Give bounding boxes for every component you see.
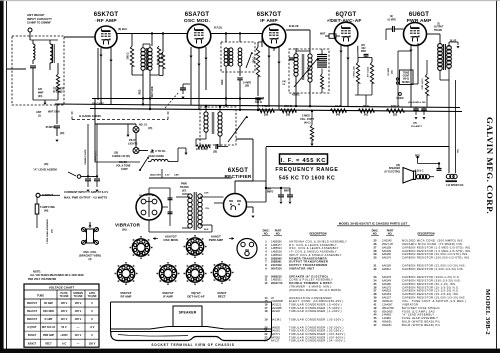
svg-text:TRANS: TRANS	[434, 29, 442, 32]
svg-text:+105V: +105V	[60, 333, 68, 337]
svg-text:R.F.(2): R.F.(2)	[214, 26, 222, 30]
svg-text:FUSE LEAD ASSEMBLY: FUSE LEAD ASSEMBLY	[46, 218, 49, 243]
svg-text:(14): (14)	[282, 80, 286, 83]
svg-text:"A" LEAD ASSEM: "A" LEAD ASSEM	[33, 168, 57, 172]
svg-text:& GANG COND.: & GANG COND.	[79, 114, 102, 118]
svg-text:12A4097: 12A4097	[382, 302, 393, 306]
svg-text:NO.: NO.	[373, 233, 378, 236]
svg-text:26A47-53: 26A47-53	[271, 281, 283, 285]
svg-text:6SA7GT: 6SA7GT	[185, 12, 210, 18]
svg-text:OSC MOD.: OSC MOD.	[184, 18, 211, 24]
svg-text:455 KC: 455 KC	[292, 94, 300, 97]
svg-text:TUBULAR CONDENSER (.04--300V.): TUBULAR CONDENSER (.04--300V.)	[289, 339, 345, 343]
svg-text:(16): (16)	[396, 165, 400, 167]
svg-text:(1): (1)	[38, 115, 41, 118]
svg-text:(6) BLU: (6) BLU	[118, 27, 127, 31]
svg-text:CARBON RESISTOR (50-1-10) INS.: CARBON RESISTOR (50-1-10) INS.	[402, 282, 456, 286]
svg-text:MODEL 39-B2 6SA7GT IC CHASS: MODEL 39-B2 6SA7GT IC CHASSIS PARTS LIST	[339, 221, 408, 225]
svg-text:6SK7GT: 6SK7GT	[257, 12, 282, 18]
svg-text:545 KC TO 1600 KC: 545 KC TO 1600 KC	[279, 176, 336, 182]
svg-text:DESCRIPTION: DESCRIPTION	[417, 233, 434, 236]
svg-text:(42A) GRO: (42A) GRO	[150, 174, 161, 177]
svg-text:6X5GT: 6X5GT	[28, 341, 37, 345]
svg-text:CARBON RESISTOR (1.0 MEG-1/3-S: CARBON RESISTOR (1.0 MEG-1/3-STD) INS.	[402, 249, 471, 253]
svg-text:VOICE: VOICE	[396, 97, 404, 100]
svg-text:DET-AVC-AF: DET-AVC-AF	[187, 295, 205, 299]
svg-text:33K Ω: 33K Ω	[126, 52, 129, 59]
svg-text:SOCKET TERMINAL VIEW OF CH: SOCKET TERMINAL VIEW OF CHASSIS	[151, 343, 234, 347]
svg-text:C6H: C6H	[204, 193, 209, 195]
svg-text:YEL: YEL	[458, 148, 460, 153]
svg-text:WHT GRN: WHT GRN	[48, 111, 60, 114]
svg-text:IF AMP: IF AMP	[163, 295, 173, 299]
svg-text:TO GND: TO GND	[60, 296, 69, 298]
svg-text:CARBON RESISTOR (330-1/3-20) I: CARBON RESISTOR (330-1/3-20) INS.	[402, 278, 461, 282]
svg-text:(48): (48)	[44, 209, 48, 212]
svg-text:VIBRATOR UNIT: VIBRATOR UNIT	[289, 266, 314, 270]
svg-text:6A6512: 6A6512	[382, 267, 392, 271]
svg-text:.01 MFD: .01 MFD	[387, 19, 396, 21]
svg-text:GALVIN MFG. CORP.: GALVIN MFG. CORP.	[485, 117, 495, 214]
svg-text:45A6/51: 45A6/51	[382, 323, 392, 327]
svg-text:NO. 51: NO. 51	[139, 124, 148, 127]
svg-text:(3): (3)	[89, 258, 92, 261]
svg-text:CARBON RESISTOR (22-1/3-20) N.: CARBON RESISTOR (22-1/3-20) N.S.	[402, 289, 459, 293]
svg-text:330 Ω: 330 Ω	[255, 101, 262, 104]
svg-text:·RF AMP: ·RF AMP	[95, 18, 117, 24]
svg-text:B BLUE: B BLUE	[289, 24, 299, 28]
svg-text:6A6139: 6A6139	[382, 249, 392, 253]
svg-text:ANT: ANT	[36, 110, 42, 114]
svg-text:ON GANG: ON GANG	[92, 103, 104, 106]
svg-text:2200 Ω: 2200 Ω	[391, 104, 400, 108]
svg-text:TUBULAR CONDENSER (.05-100V.): TUBULAR CONDENSER (.05-100V.)	[289, 317, 344, 321]
svg-text:27K Ω (36): 27K Ω (36)	[196, 149, 208, 151]
svg-text:FUSE (1/2 AMP.) 3AG: FUSE (1/2 AMP.) 3AG	[402, 309, 435, 313]
svg-text:RF AMP: RF AMP	[121, 295, 132, 299]
svg-text:(47): (47)	[327, 19, 332, 23]
svg-text:(50): (50)	[51, 229, 53, 233]
svg-text:105 V: 105 V	[89, 341, 96, 345]
svg-text:(26): (26)	[264, 114, 268, 117]
svg-text:CARBON RESISTOR (25-1/3-20) IN: CARBON RESISTOR (25-1/3-20) INS.	[402, 292, 459, 296]
svg-text:14A981: 14A981	[382, 316, 392, 320]
svg-text:6 Q7GT: 6 Q7GT	[27, 325, 37, 329]
svg-text:(59) BOND & YEL: (59) BOND & YEL	[408, 102, 427, 104]
svg-text:105 V: 105 V	[75, 301, 82, 305]
svg-text:6SA7GT: 6SA7GT	[27, 309, 38, 313]
svg-text:OSC. COIL: OSC. COIL	[83, 250, 97, 254]
svg-text:ALL VOLTAGES MEASURED ON A 100: ALL VOLTAGES MEASURED ON A 1000 OHM	[30, 274, 83, 277]
svg-text:(35): (35)	[392, 70, 394, 74]
svg-text:1 MEG: 1 MEG	[262, 104, 270, 108]
svg-text:(33): (33)	[393, 114, 397, 117]
svg-text:4 Ω SPKR FLD.: 4 Ω SPKR FLD.	[446, 184, 464, 187]
svg-text:3 Ω & C: 3 Ω & C	[415, 171, 424, 173]
svg-text:NOTE:: NOTE:	[33, 270, 41, 274]
svg-text:A C: A C	[62, 341, 66, 345]
svg-text:23 MMF TO 230MMF: 23 MMF TO 230MMF	[27, 22, 51, 25]
svg-text:6SK7GT: 6SK7GT	[94, 12, 119, 18]
svg-text:RECT.: RECT.	[218, 295, 227, 299]
svg-text:(28): (28)	[213, 151, 217, 153]
svg-text:8A2120: 8A2120	[271, 309, 281, 313]
svg-text:OSC MOD: OSC MOD	[43, 311, 54, 313]
svg-text:105 V: 105 V	[61, 309, 68, 313]
svg-text:CERAMIC MICA COND. (70 MMFD) I: CERAMIC MICA COND. (70 MMFD) INS.	[402, 242, 463, 246]
svg-text:—: —	[77, 326, 80, 329]
svg-text:(9): (9)	[390, 16, 393, 18]
svg-text:TO GND: TO GND	[74, 296, 83, 298]
svg-text:WHT: WHT	[320, 33, 326, 36]
svg-text:(57): (57)	[182, 189, 186, 192]
svg-text:RECT: RECT	[45, 343, 52, 345]
svg-text:WHT GRN: WHT GRN	[152, 86, 154, 97]
svg-text:6A6178: 6A6178	[382, 275, 392, 279]
svg-text:8MFD: 8MFD	[284, 191, 291, 193]
svg-text:INPUT CAPACITY: INPUT CAPACITY	[27, 17, 52, 21]
svg-text:6Q7GT: 6Q7GT	[336, 12, 357, 18]
svg-text:50A7310: 50A7310	[271, 266, 282, 270]
svg-text:6A6180: 6A6180	[382, 282, 392, 286]
svg-text:(49-1): (49-1)	[304, 122, 311, 125]
svg-text:(BRACKET VIEW): (BRACKET VIEW)	[79, 254, 101, 258]
svg-text:MODEL 39B-2: MODEL 39B-2	[484, 289, 491, 335]
svg-text:VOL., TONE CONT. & SWITCH (1/2: VOL., TONE CONT. & SWITCH (1/2 MEG.)	[402, 299, 466, 303]
svg-text:6.3V: 6.3V	[165, 175, 170, 177]
svg-text:49A5120: 49A5120	[382, 299, 393, 303]
svg-text:CARBON RESISTOR (15,000-1/3-20: CARBON RESISTOR (15,000-1/3-20) INS.	[402, 296, 466, 300]
svg-text:(27): (27)	[361, 45, 365, 47]
svg-text:CARBON RESISTOR (1000-1-20) N.: CARBON RESISTOR (1000-1-20) N.S.	[402, 275, 460, 279]
svg-text:IF AMP: IF AMP	[260, 18, 278, 24]
svg-text:HASH CHOKE: HASH CHOKE	[148, 155, 164, 158]
svg-text:(39): (39)	[245, 86, 249, 88]
svg-text:TRIMMER: TRIMMER	[53, 89, 64, 91]
svg-text:.05 MFD: .05 MFD	[45, 126, 55, 129]
svg-text:2-60245: 2-60245	[382, 239, 392, 243]
svg-text:2 MEG: 2 MEG	[302, 114, 310, 118]
svg-text:8A-127: 8A-127	[271, 339, 280, 343]
svg-text:6X5GT: 6X5GT	[228, 168, 249, 174]
svg-text:50 Ω: 50 Ω	[363, 104, 369, 108]
svg-text:6A6175: 6A6175	[382, 285, 392, 289]
svg-text:MAX. PWR OUTPUT - 4.5 WATTS: MAX. PWR OUTPUT - 4.5 WATTS	[64, 195, 107, 199]
svg-text:6A6137: 6A6137	[382, 296, 392, 300]
svg-text:MUSIC: MUSIC	[402, 81, 410, 84]
svg-text:OSC MOD.: OSC MOD.	[163, 238, 178, 242]
svg-text:CARBON RESISTOR (10-1/3-20) N.: CARBON RESISTOR (10-1/3-20) N.S.	[402, 285, 459, 289]
svg-text:6A6159: 6A6159	[382, 264, 392, 268]
svg-text:.002: .002	[361, 48, 366, 50]
svg-text:YEL: YEL	[205, 208, 210, 210]
svg-text:CURRENT INPUT:-7 AMP AT 6.3: CURRENT INPUT:-7 AMP AT 6.3 V	[64, 190, 108, 194]
svg-text:65A1455: 65A1455	[382, 309, 393, 313]
svg-text:RED: RED	[222, 79, 224, 84]
svg-text:(16): (16)	[150, 152, 154, 154]
svg-text:6SK7GT: 6SK7GT	[27, 301, 38, 305]
svg-text:CAH: CAH	[174, 174, 179, 177]
svg-text:(15): (15)	[148, 127, 152, 130]
svg-text:25A/7-CP: 25A/7-CP	[382, 242, 394, 246]
svg-text:(6" ELECTRO): (6" ELECTRO)	[384, 171, 400, 173]
svg-text:SPARK PLATE: SPARK PLATE	[84, 149, 87, 165]
svg-text:BULB (WHITE BEAD) PIL: BULB (WHITE BEAD) PIL	[402, 320, 441, 324]
svg-text:470 Ω (32): 470 Ω (32)	[366, 66, 369, 77]
svg-text:CATH: CATH	[89, 292, 96, 295]
svg-text:SQ.(3 MO) CAH: SQ.(3 MO) CAH	[139, 194, 155, 197]
svg-text:CARBON RESISTOR (22,000-1/3-20: CARBON RESISTOR (22,000-1/3-20) INS.	[402, 264, 466, 268]
svg-text:RECTIFIER: RECTIFIER	[224, 174, 251, 180]
svg-text:RED: RED	[139, 89, 141, 94]
svg-text:105 V: 105 V	[61, 301, 68, 305]
svg-text:15K Ω: 15K Ω	[252, 56, 255, 63]
svg-text:POLARITY: POLARITY	[411, 125, 423, 128]
svg-text:CARBON RESISTOR (1.0 MEG-1/3-S: CARBON RESISTOR (1.0 MEG-1/3-STD) INS.	[402, 245, 471, 249]
svg-text:VOLTAGE CHART: VOLTAGE CHART	[49, 286, 75, 290]
svg-text:10 Ω: 10 Ω	[335, 104, 341, 108]
svg-text:115 V: 115 V	[61, 317, 68, 321]
svg-text:(41): (41)	[364, 114, 368, 117]
svg-text:33K Ω: 33K Ω	[161, 52, 164, 59]
svg-text:8A-1341: 8A-1341	[271, 317, 281, 321]
svg-text:PWR AMP: PWR AMP	[209, 238, 223, 242]
svg-text:6A6158: 6A6158	[382, 245, 392, 249]
svg-text:CARBON RESISTOR (100,000-1/3-S: CARBON RESISTOR (100,000-1/3-STD) INS.	[402, 256, 471, 260]
svg-text:X TO FIL.: X TO FIL.	[155, 149, 167, 153]
svg-text:TUBE: TUBE	[37, 293, 45, 297]
svg-text:OUTPUT: OUTPUT	[434, 27, 444, 29]
svg-text:6A6523: 6A6523	[382, 289, 392, 293]
svg-text:SPEAKER: SPEAKER	[389, 167, 400, 170]
svg-text:14A965: 14A965	[382, 313, 392, 317]
svg-text:6A6176: 6A6176	[382, 256, 392, 260]
svg-text:(56): (56)	[122, 228, 127, 232]
svg-text:FUSE LEAD ASSEMBLY: FUSE LEAD ASSEMBLY	[402, 316, 438, 320]
svg-text:1000 Ω(37): 1000 Ω(37)	[422, 78, 424, 89]
svg-text:VIB: VIB	[245, 248, 249, 252]
svg-text:VIBRATOR: VIBRATOR	[115, 223, 141, 228]
svg-text:(44): (44)	[336, 114, 340, 117]
svg-text:6A6163: 6A6163	[382, 292, 392, 296]
svg-text:RF AMP: RF AMP	[44, 302, 53, 305]
svg-text:(30): (30)	[38, 95, 42, 98]
svg-text:22K Ω: 22K Ω	[284, 104, 292, 108]
svg-text:SCREEN: SCREEN	[73, 293, 83, 295]
svg-text:CONT: CONT	[403, 74, 410, 77]
svg-text:14 MFD: 14 MFD	[243, 82, 252, 85]
svg-text:105 V: 105 V	[75, 309, 82, 313]
svg-text:IF AMP: IF AMP	[45, 318, 53, 321]
svg-text:(PADDING RANGE: 30-110 MMFD): (PADDING RANGE: 30-110 MMFD)	[289, 288, 342, 292]
svg-text:NO.: NO.	[388, 233, 393, 236]
svg-text:(58): (58)	[413, 123, 417, 125]
svg-text:6A6249: 6A6249	[382, 278, 392, 282]
svg-text:(7): (7)	[437, 24, 440, 26]
svg-text:BAYONET FUSE SHIELD: BAYONET FUSE SHIELD	[402, 306, 440, 310]
svg-text:TO GND: TO GND	[88, 296, 97, 298]
svg-text:50 V: 50 V	[61, 325, 67, 329]
svg-text:BULB (WHITE BEAD) PIL: BULB (WHITE BEAD) PIL	[402, 323, 441, 327]
svg-text:TUBULAR CONDENSER (.1-200V.): TUBULAR CONDENSER (.1-200V.)	[289, 309, 342, 313]
svg-text:MFD: MFD	[361, 51, 366, 53]
svg-text:DET AVC AF: DET AVC AF	[42, 326, 56, 329]
svg-text:-2 V: -2 V	[90, 325, 95, 329]
svg-text:PILOT: PILOT	[129, 138, 137, 142]
svg-text:—: —	[77, 342, 80, 345]
svg-text:CONT: CONT	[121, 168, 128, 171]
svg-text:BLK: BLK	[204, 229, 209, 231]
svg-text:.05 MFD: .05 MFD	[388, 67, 390, 76]
svg-text:6A6160: 6A6160	[382, 252, 392, 256]
svg-text:SPEAKER: SPEAKER	[179, 311, 197, 315]
svg-text:CHOKE 140 (51): CHOKE 140 (51)	[112, 155, 130, 158]
svg-text:1 MEG (30): 1 MEG (30)	[354, 66, 356, 78]
svg-text:CARBON RESISTOR (2,000-1/3-20): CARBON RESISTOR (2,000-1/3-20) INS.	[402, 267, 464, 271]
svg-text:6U6GT: 6U6GT	[28, 333, 37, 337]
svg-text:8MFD: 8MFD	[267, 192, 274, 194]
svg-text:"A" LEAD ASSEMBLY: "A" LEAD ASSEMBLY	[402, 313, 434, 317]
svg-text:PLATE: PLATE	[60, 292, 68, 295]
svg-text:38A14760: 38A14760	[382, 306, 394, 310]
svg-text:NO.: NO.	[276, 233, 281, 236]
svg-text:I. F. = 455 KC: I. F. = 455 KC	[281, 158, 327, 164]
svg-text:CARBON RESISTOR (20,000-1/3-ST: CARBON RESISTOR (20,000-1/3-STD) INS.	[402, 252, 469, 256]
svg-text:115 V: 115 V	[75, 333, 82, 337]
svg-text:(29): (29)	[60, 132, 64, 135]
svg-text:FREQUENCY RANGE: FREQUENCY RANGE	[275, 167, 338, 173]
svg-text:105 V: 105 V	[75, 317, 82, 321]
svg-text:45A6/51: 45A6/51	[382, 320, 392, 324]
svg-text:VIBRATOR: VIBRATOR	[402, 302, 418, 306]
svg-text:NO.: NO.	[264, 233, 269, 236]
svg-text:DESCRIPTION: DESCRIPTION	[309, 233, 326, 236]
svg-text:IN GANG: IN GANG	[53, 91, 63, 94]
svg-text:6U6GT: 6U6GT	[409, 12, 429, 18]
svg-text:PWR AMP: PWR AMP	[43, 334, 54, 337]
svg-text:PER VOLT VOLTMETER: PER VOLT VOLTMETER	[28, 278, 56, 281]
svg-text:(28): (28)	[286, 114, 290, 117]
svg-text:LIGHTS: LIGHTS	[128, 142, 138, 146]
svg-text:MOLDED MICA COND. (500 MMFD) I: MOLDED MICA COND. (500 MMFD) INS.	[402, 239, 464, 243]
svg-text:(46): (46)	[44, 163, 48, 166]
svg-text:6SK7GT: 6SK7GT	[27, 317, 38, 321]
